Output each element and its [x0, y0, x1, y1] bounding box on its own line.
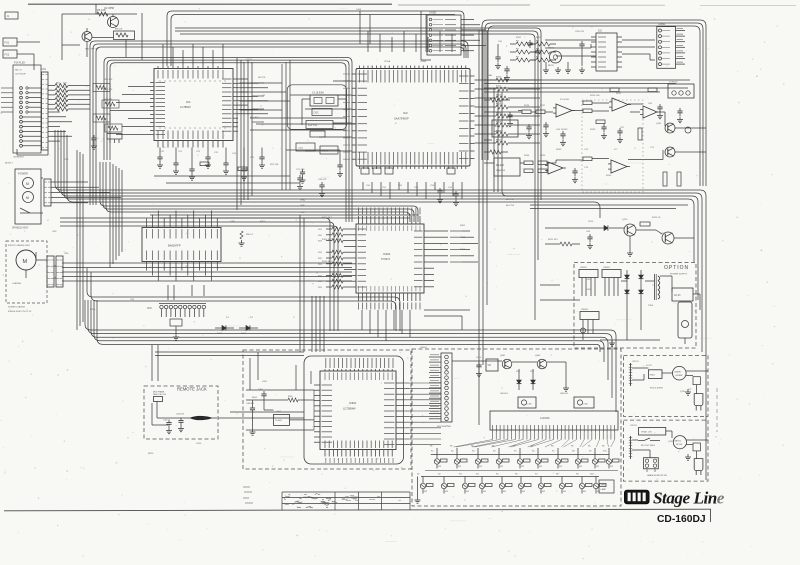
- wire: [363, 182, 462, 199]
- wire: [494, 88, 540, 196]
- transistor Q202: [665, 147, 675, 157]
- title block table: [282, 492, 410, 510]
- svg-text:S5: S5: [496, 474, 499, 476]
- svg-text:R31: R31: [318, 252, 323, 254]
- svg-text:SW: SW: [596, 466, 599, 468]
- svg-text:BA6297FP: BA6297FP: [168, 244, 181, 248]
- wire: [425, 470, 618, 472]
- svg-text:K8: K8: [572, 451, 575, 453]
- svg-text:C52: C52: [398, 185, 403, 187]
- svg-text:C60: C60: [498, 41, 503, 43]
- svg-text:IC6 4558: IC6 4558: [560, 99, 570, 101]
- svg-text:C25: C25: [250, 157, 255, 159]
- border tick: [710, 509, 712, 522]
- svg-text:C21: C21: [178, 151, 183, 153]
- svg-text:BA7252: BA7252: [675, 440, 682, 443]
- svg-text:ZD1: ZD1: [516, 371, 521, 373]
- capacitor C27: [297, 175, 303, 190]
- svg-text:S4: S4: [476, 474, 479, 476]
- svg-text:P1A FLEX: P1A FLEX: [14, 62, 25, 65]
- svg-text:GND: GND: [300, 199, 306, 202]
- svg-text:R22 10K: R22 10K: [270, 164, 279, 166]
- wire bus SRV: [60, 218, 330, 331]
- wire bus SRV: [60, 222, 334, 331]
- connector PHONES jack: [694, 394, 703, 411]
- resistor R704: [693, 443, 700, 451]
- wire: [484, 100, 510, 152]
- microcontroller IC2 SAA7345: [343, 66, 475, 170]
- wire: [152, 402, 190, 426]
- led LED602: [574, 397, 594, 408]
- svg-text:LAMP: LAMP: [601, 488, 607, 491]
- svg-text:R240: R240: [556, 149, 562, 151]
- svg-text:R310 4K7: R310 4K7: [322, 217, 333, 219]
- op-amp IC7a: [640, 106, 660, 118]
- svg-text:R31: R31: [318, 264, 323, 266]
- relay RY701: [644, 458, 659, 472]
- capacitor bank C20-C26: [157, 148, 265, 181]
- resistor R220: [636, 222, 656, 230]
- svg-text:R220 1K: R220 1K: [652, 217, 661, 219]
- svg-text:ZD2: ZD2: [530, 371, 535, 373]
- svg-text:C24: C24: [232, 153, 237, 155]
- wire: [36, 178, 43, 213]
- capacitor C52: [543, 122, 549, 137]
- wire bus XLT: [167, 9, 464, 66]
- svg-text:C8: C8: [262, 95, 266, 97]
- svg-text:C71: C71: [688, 389, 691, 391]
- svg-text:R230 10K: R230 10K: [590, 95, 600, 97]
- wire loop: [304, 356, 404, 464]
- logo text Stage Line: [653, 489, 725, 508]
- svg-text:AOUT-L: AOUT-L: [506, 198, 515, 201]
- svg-text:C67: C67: [620, 127, 625, 129]
- svg-text:LED601: LED601: [500, 393, 509, 395]
- svg-text:C50: C50: [366, 185, 371, 187]
- capacitor C50: [507, 112, 513, 127]
- svg-text:CN904: CN904: [581, 309, 589, 311]
- connector CN602: [429, 353, 452, 428]
- svg-text:SEL.01: SEL.01: [15, 70, 22, 72]
- svg-text:K2: K2: [451, 451, 454, 453]
- svg-text:R202: R202: [536, 37, 542, 39]
- wire: [622, 40, 655, 60]
- svg-text:C80: C80: [586, 231, 591, 233]
- svg-text:S2: S2: [438, 474, 441, 476]
- wire: [17, 42, 40, 70]
- resistor R217: [490, 98, 501, 154]
- resistor network RN1: [93, 84, 122, 133]
- connector CN101: [427, 12, 486, 56]
- svg-text:R236: R236: [524, 105, 530, 107]
- svg-text:C71: C71: [650, 147, 655, 149]
- svg-text:SW: SW: [424, 491, 427, 493]
- wire: [1, 88, 13, 112]
- svg-text:LC75854W: LC75854W: [343, 408, 356, 411]
- op-amp IC5 4558: [591, 30, 622, 72]
- svg-text:S8: S8: [556, 474, 559, 476]
- wire: [520, 150, 663, 163]
- svg-text:K7: K7: [552, 451, 555, 453]
- svg-text:C22: C22: [196, 151, 201, 153]
- op-amp IC201 BA6297 driver: [142, 211, 221, 281]
- resistor R31: [310, 131, 325, 137]
- wire: [530, 205, 688, 209]
- wire: [545, 228, 694, 256]
- resistor array R61-R66: [48, 82, 90, 111]
- svg-text:S1: S1: [417, 474, 420, 476]
- key display dashed box: [412, 349, 621, 506]
- resistor network R33: [296, 143, 338, 154]
- inductor L401 plug: [190, 416, 217, 420]
- logo IMG Stage Line: [625, 490, 650, 503]
- svg-text:S3: S3: [459, 474, 462, 476]
- svg-text:R100: R100: [496, 77, 502, 79]
- svg-text:R6: R6: [551, 446, 553, 448]
- wire: [632, 431, 708, 477]
- svg-text:C610: C610: [476, 357, 482, 359]
- headphone volume dashed box: [624, 420, 709, 481]
- svg-text:LM4880: LM4880: [674, 372, 681, 374]
- svg-text:HP SW: HP SW: [676, 444, 682, 446]
- svg-text:C28 47P: C28 47P: [318, 179, 327, 181]
- svg-text:KEY/DISPLAY: KEY/DISPLAY: [437, 425, 452, 428]
- svg-text:R301: R301: [460, 225, 466, 227]
- wire: [154, 176, 300, 183]
- svg-text:SW: SW: [539, 466, 542, 468]
- svg-text:SW: SW: [583, 491, 586, 493]
- wire: [302, 99, 356, 125]
- capacitor C56: [657, 104, 663, 119]
- connector P1A: [5, 62, 42, 165]
- svg-text:C53: C53: [414, 187, 419, 189]
- svg-text:IC1: IC1: [186, 100, 191, 104]
- resistor R21: [200, 162, 247, 171]
- diode D902: [639, 270, 644, 290]
- svg-text:D601: D601: [217, 333, 223, 335]
- svg-text:R64 470: R64 470: [104, 99, 113, 101]
- capacitor C29: [300, 169, 306, 183]
- svg-text:REMOTE CON: REMOTE CON: [153, 394, 166, 396]
- capacitor C55: [572, 168, 578, 183]
- ground: [685, 454, 691, 460]
- wire: [282, 60, 290, 190]
- sheet border line: [4, 509, 711, 511]
- svg-text:VR: VR: [488, 364, 492, 367]
- svg-text:LED: LED: [584, 404, 589, 406]
- wire bus CLK: [104, 58, 352, 223]
- svg-text:SW: SW: [483, 491, 486, 493]
- svg-text:K1: K1: [431, 451, 434, 453]
- svg-text:R605: R605: [288, 396, 293, 398]
- svg-text:VDDA: VDDA: [384, 60, 391, 63]
- wire bus MAIN: [64, 130, 694, 262]
- svg-text:R105: R105: [496, 122, 502, 124]
- filter TL4905: [274, 414, 290, 425]
- capacitor C58: [560, 131, 566, 146]
- svg-text:C602: C602: [276, 411, 282, 413]
- svg-text:CN901: CN901: [580, 267, 588, 269]
- svg-text:R6: R6: [588, 446, 590, 448]
- svg-text:R231: R231: [616, 93, 622, 95]
- svg-text:REMOTE JACK: REMOTE JACK: [177, 387, 207, 392]
- diode D904: [639, 290, 644, 302]
- wire bus MOT: [62, 267, 352, 269]
- wire bus SER: [175, 28, 541, 200]
- wire: [77, 150, 83, 330]
- svg-text:NJM4558: NJM4558: [496, 170, 506, 172]
- wire: [311, 296, 313, 352]
- amplifier IC701: [673, 366, 687, 380]
- wire bus SER2: [180, 34, 535, 320]
- transistor Q203: [685, 127, 691, 133]
- svg-text:C27 47P: C27 47P: [296, 169, 305, 171]
- wire bus SRV: [60, 226, 338, 331]
- transistor Q211: [656, 230, 674, 244]
- diode D602: [239, 325, 258, 335]
- svg-text:R330: R330: [90, 309, 96, 311]
- resistor R6: [97, 8, 108, 16]
- wire: [545, 40, 596, 56]
- wire: [163, 44, 223, 66]
- svg-text:R6: R6: [492, 446, 494, 448]
- capacitor C503: [527, 31, 584, 56]
- svg-text:R31: R31: [318, 235, 323, 237]
- wire bus MOT: [62, 280, 352, 282]
- svg-text:R2: R2: [516, 48, 520, 50]
- connector TOROID: [668, 82, 694, 99]
- svg-text:J1: J1: [7, 15, 10, 18]
- transistor Q1: [82, 28, 114, 51]
- wire bus TRK: [87, 268, 400, 331]
- wire: [110, 162, 122, 268]
- wire: [173, 326, 179, 340]
- capacitor C33: [437, 188, 443, 203]
- svg-text:R233: R233: [590, 129, 596, 131]
- svg-text:CN/SELECT: CN/SELECT: [13, 157, 25, 159]
- wire: [300, 215, 304, 352]
- voltage reg IC610: [486, 359, 498, 371]
- resistor R216: [610, 88, 657, 92]
- svg-text:IC601: IC601: [349, 401, 357, 405]
- capacitor C403: [176, 414, 184, 432]
- svg-text:C601: C601: [262, 381, 268, 383]
- wire: [540, 285, 660, 346]
- mute section dashed box: [582, 100, 643, 192]
- svg-text:T903: T903: [648, 305, 654, 307]
- svg-text:R31: R31: [318, 287, 323, 289]
- svg-text:SW: SW: [458, 466, 461, 468]
- wire: [323, 296, 325, 352]
- wire: [240, 83, 291, 110]
- svg-text:Q701: Q701: [680, 391, 686, 393]
- switch SW701: [638, 438, 660, 447]
- svg-text:470: 470: [63, 82, 67, 84]
- capacitor C402: [163, 420, 172, 434]
- transistor Q2: [104, 6, 119, 28]
- filter block: [306, 121, 333, 129]
- svg-text:IC301: IC301: [383, 252, 391, 256]
- ground: [415, 477, 421, 504]
- wire: [62, 4, 137, 60]
- svg-text:C54: C54: [430, 185, 435, 187]
- wire bus KEYD: [97, 300, 600, 352]
- svg-text:C620: C620: [196, 443, 202, 445]
- transistor Q201: [659, 112, 675, 133]
- svg-text:Q211: Q211: [660, 233, 666, 235]
- svg-text:C403 153: C403 153: [176, 414, 184, 416]
- svg-text:K9: K9: [589, 451, 592, 453]
- resistor R215: [638, 128, 681, 186]
- svg-text:TOROID: TOROID: [669, 82, 678, 84]
- wire bus CLK: [110, 63, 346, 222]
- wire: [362, 310, 410, 341]
- svg-text:SW: SW: [522, 491, 525, 493]
- svg-text:C55: C55: [448, 187, 453, 189]
- svg-text:HEADPHONE VR SW: HEADPHONE VR SW: [647, 474, 667, 477]
- svg-text:K10: K10: [603, 451, 608, 453]
- svg-text:R601: R601: [252, 397, 258, 399]
- capacitor C12: [91, 135, 97, 149]
- pin header CN2: [44, 179, 51, 206]
- title block annotations: [284, 494, 401, 508]
- svg-text:POWER: POWER: [18, 172, 28, 176]
- wire: [421, 11, 431, 60]
- capacitor C28: [319, 182, 325, 197]
- svg-text:Q210: Q210: [622, 219, 628, 221]
- svg-text:R6: R6: [430, 446, 432, 448]
- wire bus KEYD: [88, 300, 612, 398]
- wire: [252, 83, 264, 122]
- op-amp IC8a: [545, 162, 566, 174]
- svg-text:S6: S6: [515, 474, 518, 476]
- capacitor C60: [587, 234, 593, 249]
- wire: [150, 215, 418, 218]
- resistor VR701: [648, 370, 662, 379]
- svg-text:RA1: RA1: [488, 74, 493, 77]
- svg-text:SW: SW: [559, 466, 562, 468]
- svg-text:POWER LOADING: POWER LOADING: [8, 306, 26, 309]
- filter LPF1: [492, 120, 518, 137]
- svg-text:K3: K3: [472, 451, 475, 453]
- svg-text:R6: R6: [571, 446, 573, 448]
- connector JACK901: [678, 302, 692, 344]
- svg-text:LCD601: LCD601: [540, 416, 550, 420]
- svg-text:K5: K5: [514, 451, 517, 453]
- svg-text:SW: SW: [500, 466, 503, 468]
- svg-text:S10: S10: [590, 474, 595, 476]
- wire bus AUDIO: [485, 23, 703, 186]
- svg-text:IC2: IC2: [403, 111, 408, 115]
- svg-text:C65: C65: [648, 103, 653, 105]
- fold mark: [716, 388, 718, 432]
- wire: [155, 352, 304, 356]
- svg-text:M: M: [26, 196, 29, 200]
- svg-text:C406 475: C406 475: [246, 403, 254, 405]
- diode ZD601: [517, 374, 522, 390]
- svg-text:MUTE: MUTE: [548, 65, 554, 67]
- svg-text:LED602: LED602: [560, 393, 569, 395]
- connector CN701: [629, 363, 632, 386]
- capacitor C40: [495, 44, 501, 69]
- svg-text:SW: SW: [445, 491, 448, 493]
- wire: [48, 112, 72, 141]
- svg-text:CN5: CN5: [147, 308, 152, 310]
- connector J3: [3, 50, 17, 58]
- REMOTE JACK dashed box: [144, 386, 218, 439]
- svg-text:R9 22K: R9 22K: [258, 77, 266, 79]
- svg-text:TC9274: TC9274: [381, 258, 391, 261]
- wire bus SER: [175, 31, 538, 260]
- transformer T3: [580, 309, 599, 334]
- key switch row KEY1-KEY10: [430, 446, 619, 469]
- annotation marks: [243, 487, 253, 503]
- svg-text:R6: R6: [450, 446, 452, 448]
- capacitor C34: [453, 191, 459, 206]
- svg-text:CN4: CN4: [64, 253, 69, 255]
- svg-text:R102: R102: [496, 95, 502, 97]
- svg-text:Q201: Q201: [656, 123, 662, 125]
- svg-text:LC78620: LC78620: [180, 105, 191, 109]
- svg-text:SW: SW: [521, 466, 524, 468]
- wire: [319, 296, 321, 352]
- wire: [110, 87, 150, 135]
- svg-text:R245: R245: [540, 155, 546, 157]
- wire: [315, 296, 317, 352]
- wire: [246, 390, 314, 430]
- svg-text:SW: SW: [610, 466, 613, 468]
- svg-text:R221 4K7: R221 4K7: [548, 239, 559, 241]
- wire: [238, 79, 268, 114]
- svg-text:C2 0.1: C2 0.1: [246, 59, 253, 61]
- wire bus SUB: [103, 162, 414, 222]
- svg-text:FG2: FG2: [5, 54, 10, 57]
- svg-text:OSC: OSC: [314, 112, 319, 115]
- resistor box R5: [114, 29, 135, 40]
- wire bus KEYD: [91, 300, 608, 380]
- svg-text:CN3: CN3: [52, 231, 57, 233]
- svg-text:Q602: Q602: [535, 355, 541, 357]
- pin header CN3: [47, 256, 54, 287]
- svg-text:R2: R2: [516, 40, 520, 42]
- svg-text:D901: D901: [586, 279, 592, 281]
- microcontroller IC601 LC75854 display driver: [314, 358, 409, 463]
- wire: [237, 58, 244, 210]
- wire: [632, 368, 708, 394]
- potentiometer VR601: [639, 428, 666, 436]
- motor block POWER: [12, 169, 41, 230]
- diode D903: [625, 290, 630, 302]
- svg-text:SW: SW: [479, 466, 482, 468]
- wire: [286, 95, 346, 162]
- connector CN903: [672, 288, 693, 301]
- svg-text:R303: R303: [460, 249, 466, 251]
- wire bus MAIN: [55, 130, 706, 480]
- svg-text:C51: C51: [382, 187, 387, 189]
- svg-text:C503 C31: C503 C31: [575, 31, 585, 33]
- wire: [305, 81, 352, 151]
- svg-text:R31: R31: [318, 281, 323, 283]
- model label CD-160DJ: [657, 514, 706, 525]
- svg-text:CN101: CN101: [429, 12, 437, 15]
- svg-text:D2: D2: [250, 317, 254, 319]
- svg-text:R302: R302: [460, 237, 466, 239]
- svg-text:Q702: Q702: [668, 441, 674, 443]
- resistor R212: [583, 157, 592, 161]
- wire: [484, 80, 690, 92]
- svg-text:SW: SW: [438, 466, 441, 468]
- resistor R221: [545, 242, 580, 246]
